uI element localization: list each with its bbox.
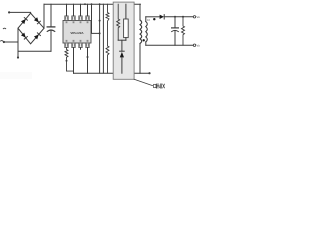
wire output bottom [146, 44, 193, 46]
annotation text 吸收 (drawn glyphs) [154, 84, 165, 89]
AC input terminal 2 [3, 41, 5, 43]
resistor R5 load [182, 16, 184, 18]
pin 6 box [79, 16, 82, 21]
wire pin2 bottom [73, 48, 75, 74]
wire pin7 top [73, 4, 75, 16]
pin 4 box [86, 43, 89, 48]
transformer primary [139, 4, 141, 20]
node [99, 32, 101, 34]
pin box hatches [66, 17, 68, 19]
wire [43, 4, 45, 28]
diode D1 top-left [21, 17, 28, 24]
diode D2 top-right [34, 17, 41, 24]
wire bottom bus [74, 72, 150, 74]
bridge rectifier diamond [18, 13, 44, 44]
wire [121, 40, 123, 51]
output terminal - [193, 44, 195, 46]
wire [17, 28, 19, 57]
diode D5 output [160, 15, 164, 19]
wire DC+ top rail [44, 3, 140, 5]
pin 3 box [79, 43, 82, 48]
svg-text:10: 10 [147, 18, 150, 22]
capacitor C3 output [174, 16, 176, 18]
phase dot primary [143, 39, 145, 41]
wire [146, 16, 160, 18]
snubber capacitor C2 [125, 4, 127, 19]
pin 2 box [72, 43, 75, 48]
pin 1 box [65, 43, 68, 48]
wire V2 [102, 4, 104, 73]
resistor R2 [106, 4, 109, 46]
node [87, 56, 89, 58]
diode D4 bottom-right [34, 33, 41, 40]
wire [164, 16, 193, 18]
wire [118, 39, 126, 41]
wire pin3 stub [80, 48, 82, 50]
node [66, 60, 68, 62]
snubber resistor R4 [117, 4, 120, 40]
IC U1 body [63, 21, 91, 44]
node [148, 72, 150, 74]
wire pin4 bottom [87, 48, 89, 74]
resistor R1 [65, 48, 74, 72]
svg-text:Vo: Vo [196, 43, 200, 47]
svg-text:Vo: Vo [196, 15, 200, 19]
phase dot secondary [153, 18, 155, 20]
wire pin6 top [80, 4, 82, 16]
resistor R3 [106, 46, 109, 73]
node [99, 20, 101, 22]
wire IC side [92, 4, 100, 33]
node [17, 56, 19, 58]
wire [121, 57, 123, 73]
diode D3 bottom-left [21, 33, 28, 40]
snubber shaded box [113, 2, 134, 79]
pin 7 box [72, 16, 75, 21]
AC label ~ [3, 27, 5, 30]
wire V1 [99, 4, 101, 73]
wire pin5 top [87, 4, 89, 16]
diode D6 clamp [120, 50, 125, 52]
wire [4, 41, 18, 43]
wire [18, 50, 51, 52]
node [84, 3, 86, 5]
wire [139, 44, 141, 74]
transformer secondary [145, 17, 147, 22]
capacitor C1 bulk [50, 4, 52, 26]
faint band [0, 72, 32, 79]
annotation pointer [134, 79, 152, 85]
pin 5 box [86, 16, 89, 21]
wire pin8 top [66, 4, 68, 16]
pin 8 box [65, 16, 68, 21]
svg-text:VIPer22A: VIPer22A [70, 31, 84, 35]
output terminal + [193, 16, 195, 18]
AC input terminal 1 [8, 11, 10, 13]
wire [9, 11, 31, 14]
AC label ~ [1, 40, 3, 42]
node [99, 3, 101, 5]
